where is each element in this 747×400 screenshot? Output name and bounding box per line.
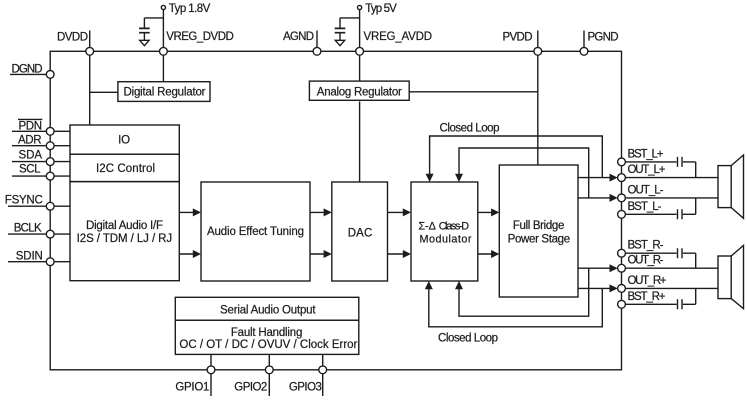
svg-text:OUT_L+: OUT_L+ — [628, 164, 666, 176]
svg-text:Σ-Δ: Σ-Δ — [418, 220, 435, 232]
svg-text:IO: IO — [118, 134, 130, 146]
svg-text:BST_R-: BST_R- — [628, 240, 664, 252]
svg-text:Closed Loop: Closed Loop — [438, 332, 498, 344]
svg-text:OUT_R-: OUT_R- — [628, 255, 664, 267]
svg-text:VREG_AVDD: VREG_AVDD — [364, 31, 433, 43]
svg-text:Closed Loop: Closed Loop — [440, 122, 500, 134]
svg-text:Serial Audio Output: Serial Audio Output — [220, 304, 316, 316]
svg-text:Typ 1.8V: Typ 1.8V — [169, 3, 211, 15]
svg-text:DGND: DGND — [12, 63, 43, 75]
svg-text:Analog Regulator: Analog Regulator — [317, 86, 402, 98]
svg-text:FSYNC: FSYNC — [5, 194, 43, 206]
svg-text:DAC: DAC — [348, 228, 373, 240]
svg-text:Class-D: Class-D — [439, 220, 470, 232]
svg-text:OUT_R+: OUT_R+ — [628, 275, 667, 287]
svg-text:PGND: PGND — [588, 31, 619, 43]
svg-text:PDN: PDN — [19, 120, 43, 132]
svg-text:SDA: SDA — [19, 149, 43, 161]
svg-text:Fault Handling: Fault Handling — [231, 327, 303, 339]
svg-text:OC / OT / DC / OVUV / Clock Er: OC / OT / DC / OVUV / Clock Error — [179, 339, 357, 351]
svg-text:Typ 5V: Typ 5V — [365, 3, 397, 15]
svg-text:Modulator: Modulator — [420, 233, 472, 245]
svg-text:SCL: SCL — [19, 164, 41, 176]
svg-text:GPIO1: GPIO1 — [175, 382, 209, 394]
svg-text:SDIN: SDIN — [16, 250, 43, 262]
svg-text:AGND: AGND — [283, 31, 314, 43]
svg-text:Digital Regulator: Digital Regulator — [124, 87, 206, 99]
svg-text:GPIO3: GPIO3 — [289, 382, 322, 394]
svg-text:I2C Control: I2C Control — [96, 163, 155, 175]
svg-text:Power Stage: Power Stage — [508, 234, 571, 246]
svg-text:ADR: ADR — [18, 135, 42, 147]
svg-text:PVDD: PVDD — [503, 31, 533, 43]
svg-text:GPIO2: GPIO2 — [234, 382, 267, 394]
svg-text:Full Bridge: Full Bridge — [513, 220, 565, 232]
svg-text:BST_L+: BST_L+ — [628, 148, 664, 160]
svg-text:Digital Audio I/F: Digital Audio I/F — [86, 220, 163, 232]
svg-text:DVDD: DVDD — [57, 31, 88, 43]
svg-text:BST_L-: BST_L- — [628, 201, 662, 213]
svg-text:I2S / TDM / LJ / RJ: I2S / TDM / LJ / RJ — [77, 233, 172, 245]
svg-text:BCLK: BCLK — [14, 222, 42, 234]
svg-text:BST_R+: BST_R+ — [628, 291, 666, 303]
svg-text:Audio Effect Tuning: Audio Effect Tuning — [207, 226, 304, 238]
svg-text:OUT_L-: OUT_L- — [628, 184, 664, 196]
svg-text:VREG_DVDD: VREG_DVDD — [166, 31, 234, 43]
